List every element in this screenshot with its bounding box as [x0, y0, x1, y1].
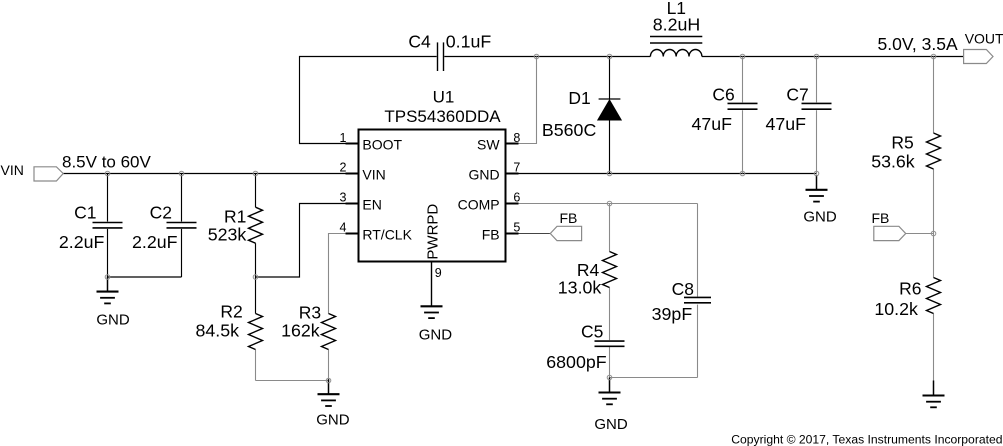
- wire VOUT to R5: [933, 57, 935, 134]
- wire RT/CLK pin 4 to R3: [329, 234, 346, 314]
- wire top net C4 to L1: [444, 56, 650, 58]
- svg-text:9: 9: [435, 266, 442, 280]
- wire FB flag to node: [906, 233, 934, 235]
- svg-text:GND: GND: [419, 327, 453, 344]
- wire C2 branch: [181, 174, 183, 222]
- wire R5 to FB node: [933, 169, 935, 234]
- svg-text:7: 7: [513, 161, 520, 175]
- resistor R4: [603, 252, 617, 288]
- svg-text:39pF: 39pF: [652, 304, 693, 324]
- svg-text:C7: C7: [786, 85, 808, 105]
- svg-text:GND: GND: [803, 208, 837, 225]
- svg-text:FB: FB: [560, 210, 578, 226]
- wire FB node to R6: [933, 234, 935, 278]
- wire R6 to ground: [933, 314, 935, 381]
- svg-text:GND: GND: [468, 167, 499, 183]
- wire C8 branch: [697, 204, 699, 297]
- svg-text:TPS54360DDA: TPS54360DDA: [384, 107, 501, 126]
- terminal VIN: [34, 167, 63, 181]
- ground C1/C2: [107, 277, 109, 292]
- svg-text:FB: FB: [872, 210, 890, 226]
- svg-text:523k: 523k: [208, 225, 247, 245]
- wire C1 branch: [107, 174, 109, 222]
- wire COMP to R4: [609, 204, 611, 252]
- wire R3 bottom lead: [328, 350, 330, 381]
- resistor R1: [249, 207, 263, 243]
- capacitor C1: [93, 222, 123, 224]
- inductor L1: [650, 50, 702, 57]
- svg-text:BOOT: BOOT: [362, 137, 402, 153]
- svg-text:53.6k: 53.6k: [871, 152, 915, 172]
- svg-text:FB: FB: [482, 227, 500, 243]
- svg-text:C1: C1: [74, 202, 96, 222]
- resistor R5: [927, 133, 941, 169]
- svg-text:COMP: COMP: [458, 197, 500, 213]
- diode D1 B560C: [599, 98, 621, 100]
- wire C1-C2 bottom: [108, 276, 182, 278]
- svg-text:Copyright © 2017, Texas Instru: Copyright © 2017, Texas Instruments Inco…: [731, 433, 1002, 446]
- svg-text:VOUT: VOUT: [965, 31, 1003, 47]
- wire SW vertical from pin 8: [519, 57, 537, 144]
- svg-text:6: 6: [513, 191, 520, 205]
- svg-text:RT/CLK: RT/CLK: [362, 227, 412, 243]
- svg-text:2.2uF: 2.2uF: [132, 232, 178, 252]
- svg-text:47uF: 47uF: [765, 114, 806, 134]
- svg-text:GND: GND: [594, 416, 628, 433]
- svg-text:SW: SW: [477, 137, 500, 153]
- resistor R2: [249, 314, 263, 350]
- svg-text:6800pF: 6800pF: [546, 352, 606, 372]
- svg-text:R2: R2: [220, 301, 242, 321]
- svg-text:8.5V to 60V: 8.5V to 60V: [62, 153, 152, 172]
- wire R2-R3 bottom: [256, 380, 329, 382]
- svg-text:4: 4: [340, 221, 347, 235]
- svg-text:D1: D1: [568, 88, 590, 108]
- svg-text:R6: R6: [899, 279, 921, 299]
- capacitor C6: [728, 102, 758, 104]
- svg-text:C4: C4: [408, 31, 431, 51]
- wire R2 bottom lead: [255, 350, 257, 381]
- ground C7: [816, 175, 818, 190]
- wire VIN net flag to pin 2: [63, 173, 358, 175]
- node junctions: [105, 171, 110, 176]
- U1 pin stubs right: [506, 143, 519, 145]
- svg-text:C8: C8: [672, 279, 694, 299]
- svg-text:5.0V, 3.5A: 5.0V, 3.5A: [878, 34, 958, 54]
- svg-text:47uF: 47uF: [691, 114, 732, 134]
- IC U1 TPS54360DDA: [359, 130, 506, 262]
- svg-text:10.2k: 10.2k: [874, 299, 918, 319]
- svg-text:8: 8: [513, 131, 520, 145]
- U1 pin stubs left: [346, 143, 359, 145]
- svg-text:U1: U1: [433, 88, 455, 107]
- terminal VOUT: [964, 50, 993, 64]
- svg-text:8.2uH: 8.2uH: [653, 15, 700, 35]
- terminal FB pin 5: [550, 226, 581, 240]
- wire BOOT net pin 1 to C4: [300, 57, 437, 144]
- svg-text:0.1uF: 0.1uF: [446, 31, 492, 51]
- svg-text:R1: R1: [224, 206, 246, 226]
- svg-text:C5: C5: [581, 322, 603, 342]
- svg-text:GND: GND: [96, 311, 130, 328]
- ground R2/R3: [328, 379, 330, 394]
- capacitor C7: [802, 102, 832, 104]
- svg-text:VIN: VIN: [362, 167, 385, 183]
- svg-text:2.2uF: 2.2uF: [59, 232, 105, 252]
- svg-text:13.0k: 13.0k: [558, 277, 602, 297]
- capacitor C5: [595, 340, 625, 342]
- wire D1 vertical: [609, 57, 611, 100]
- wire C6 branch: [742, 57, 744, 103]
- ground pin 9: [421, 305, 443, 307]
- svg-text:R5: R5: [891, 132, 913, 152]
- wire R2 top lead: [255, 277, 257, 314]
- wire COMP net pin 6: [519, 203, 698, 205]
- svg-text:GND: GND: [316, 411, 350, 428]
- svg-text:EN: EN: [362, 197, 381, 213]
- terminal FB divider: [874, 226, 906, 240]
- capacitor C2: [167, 222, 197, 224]
- wire R4 to C5: [609, 288, 611, 341]
- wire C5 bottom to ground node: [609, 347, 611, 377]
- ground C5: [609, 378, 611, 393]
- svg-text:C6: C6: [712, 85, 734, 105]
- svg-text:3: 3: [340, 191, 347, 205]
- capacitor C4: [437, 42, 439, 71]
- capacitor C8: [684, 296, 711, 298]
- svg-text:84.5k: 84.5k: [196, 321, 240, 341]
- svg-text:162k: 162k: [281, 321, 320, 341]
- svg-text:2: 2: [340, 161, 347, 175]
- wire pin 9 to ground: [431, 262, 433, 307]
- wire VOUT top net L1 to VOUT flag: [702, 56, 964, 58]
- svg-text:C2: C2: [150, 202, 172, 222]
- svg-text:5: 5: [513, 221, 520, 235]
- resistor R6: [927, 278, 941, 314]
- wire FB pin 5 to flag: [519, 233, 551, 235]
- wire EN net R1/R2 node to pin 3: [256, 204, 359, 278]
- wire GND net pin 7 to C7: [506, 173, 817, 175]
- svg-text:VIN: VIN: [1, 162, 24, 178]
- wire comp bottom C5 to C8: [610, 377, 698, 379]
- wire R1 leads: [255, 174, 257, 208]
- wire C7 branch: [816, 57, 818, 103]
- svg-text:1: 1: [340, 131, 347, 145]
- svg-text:B560C: B560C: [542, 120, 597, 140]
- svg-text:R3: R3: [299, 302, 321, 322]
- ground R6: [933, 381, 935, 396]
- resistor R3: [322, 314, 336, 350]
- svg-text:PWRPD: PWRPD: [425, 204, 442, 260]
